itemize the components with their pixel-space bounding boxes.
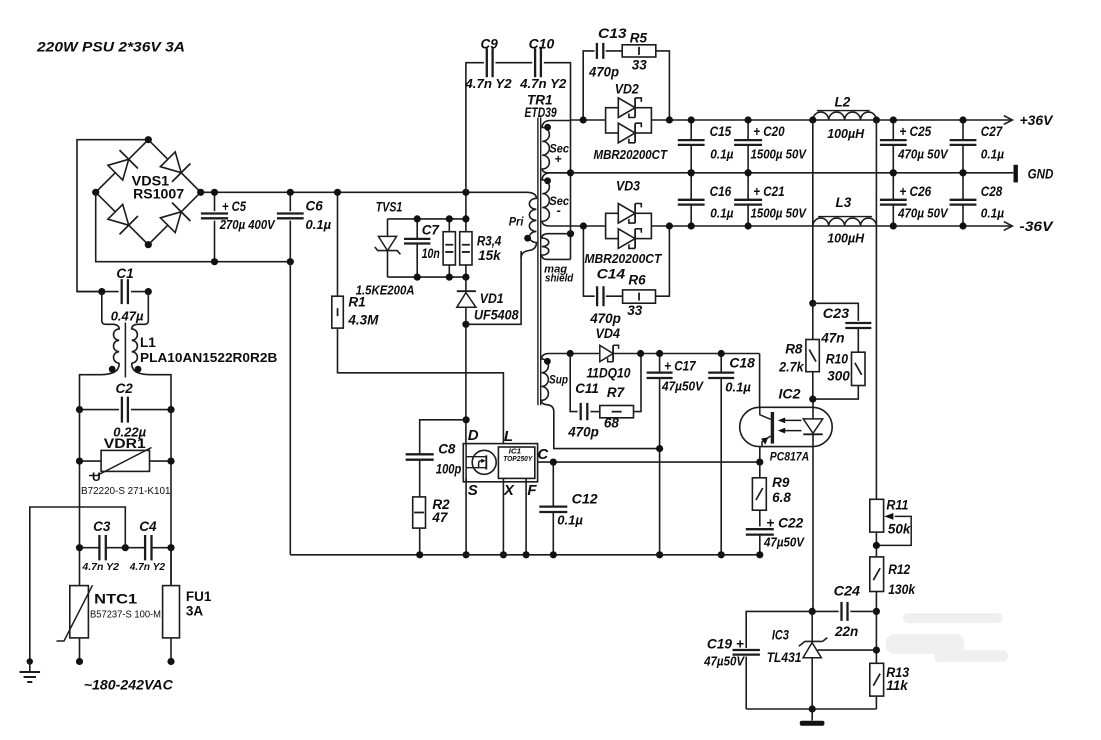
node R2 rail — [416, 551, 423, 558]
capacitor C19 — [746, 611, 812, 648]
wire Sup rail — [570, 353, 600, 355]
wire clamp riser — [465, 192, 467, 219]
wire left AC rail — [79, 410, 81, 586]
capacitor C1 — [77, 291, 119, 293]
L2 label underline — [817, 110, 870, 112]
svg-text:C10: C10 — [529, 36, 555, 51]
svg-text:C11: C11 — [575, 381, 599, 396]
node R3 bottom — [446, 274, 453, 281]
svg-text:22n: 22n — [834, 624, 858, 639]
choke L1 right bottom curl — [132, 363, 171, 410]
node C17 top — [656, 350, 663, 357]
svg-text:33: 33 — [632, 58, 648, 73]
capacitor C10 — [535, 48, 541, 77]
svg-text:C12: C12 — [572, 491, 599, 506]
node C3 left — [76, 544, 83, 551]
thermistor NTC1 — [70, 586, 89, 638]
wire mag shield vertical — [570, 234, 572, 260]
svg-text:C7: C7 — [422, 223, 441, 238]
node C4 right — [167, 544, 174, 551]
AC terminal left — [76, 658, 83, 665]
resistor R9 — [759, 462, 761, 478]
svg-text:0.1µ: 0.1µ — [306, 217, 332, 232]
capacitor C18 — [720, 354, 722, 373]
svg-text:+: + — [555, 152, 562, 166]
svg-text:F: F — [527, 482, 537, 499]
choke L1 left bottom curl — [80, 363, 120, 410]
wire AC1 top-left loop — [77, 140, 148, 292]
wire +36V rail — [571, 119, 606, 121]
snubber C13+R5 — [583, 51, 594, 120]
svg-text:3A: 3A — [186, 604, 204, 619]
svg-text:R6: R6 — [628, 272, 646, 287]
svg-text:0.1µ: 0.1µ — [981, 146, 1005, 161]
svg-text:MBR20200CT: MBR20200CT — [594, 147, 668, 162]
node earth stem — [27, 658, 33, 664]
svg-text:0.1µ: 0.1µ — [725, 380, 751, 395]
wire TL431 ref — [818, 649, 877, 651]
node C12 rail — [550, 551, 557, 558]
svg-text:C27: C27 — [981, 124, 1004, 139]
svg-text:Pri: Pri — [509, 215, 524, 229]
svg-text:47µ50V: 47µ50V — [703, 654, 745, 668]
node C28 bottom — [959, 222, 966, 229]
svg-text:FU1: FU1 — [186, 589, 212, 604]
node C2 right — [167, 406, 174, 413]
svg-text:0.1µ: 0.1µ — [557, 513, 583, 528]
svg-text:IC2: IC2 — [779, 386, 802, 401]
svg-text:B57237-S 100-M: B57237-S 100-M — [90, 610, 161, 621]
node snubber1 left — [580, 116, 587, 123]
svg-text:1500µ 50V: 1500µ 50V — [751, 147, 808, 161]
svg-text:C9: C9 — [481, 36, 499, 51]
IC1 D-S through wire — [465, 444, 467, 482]
node snubber1 right — [666, 116, 673, 123]
wire right AC rail — [170, 410, 172, 586]
node C16 top — [688, 169, 695, 176]
mag shield winding — [542, 234, 571, 260]
bridge diode bottom-left — [108, 204, 129, 225]
capacitor C8 — [420, 420, 466, 455]
capacitor C27 — [962, 120, 964, 140]
L1 phase dot right — [135, 366, 142, 373]
node TL431 anode — [809, 705, 816, 712]
capacitor C3 — [80, 547, 100, 549]
svg-text:270µ 400V: 270µ 400V — [219, 217, 276, 232]
node R1 rail — [334, 189, 341, 196]
svg-text:11k: 11k — [886, 678, 909, 693]
svg-text:68: 68 — [604, 416, 620, 431]
node bridge bottom — [145, 241, 152, 248]
capacitor C21 — [747, 173, 749, 200]
wire Y-cap run — [466, 63, 484, 193]
TVS diode TVS1 — [378, 236, 396, 250]
wire NTC to terminal — [79, 638, 81, 662]
wire clamp top — [388, 218, 466, 220]
IC1 mosfet symbol — [472, 450, 496, 474]
svg-text:~180-242VAC: ~180-242VAC — [84, 678, 173, 693]
node C22 rail — [756, 551, 763, 558]
svg-text:6.8: 6.8 — [772, 490, 791, 505]
wire S-rail (bottom common) — [290, 554, 760, 556]
node Sup rail left — [567, 350, 574, 357]
node bridge right — [197, 189, 204, 196]
node C24 left — [809, 608, 816, 615]
wire +36 sense divider — [875, 120, 877, 499]
svg-text:47µ50V: 47µ50V — [763, 536, 805, 550]
resistor R1 — [332, 296, 344, 328]
node C20 bottom — [745, 169, 752, 176]
svg-text:2.7k: 2.7k — [778, 360, 805, 375]
svg-text:C13: C13 — [598, 26, 627, 41]
svg-text:+ C20: + C20 — [753, 124, 785, 139]
node VDR1 right — [167, 458, 174, 465]
wire C pin — [538, 461, 760, 463]
svg-text:C1: C1 — [116, 266, 133, 281]
ground symbol secondary — [811, 709, 813, 721]
node C7 top — [414, 215, 421, 222]
node C11 rail right — [637, 350, 644, 357]
wire GND rail — [571, 172, 1014, 174]
node D pin — [463, 416, 470, 423]
node C5 top — [211, 189, 218, 196]
node X rail — [500, 551, 507, 558]
node VDR1 left — [76, 458, 83, 465]
node C16 bottom — [688, 222, 695, 229]
svg-text:100p: 100p — [436, 461, 461, 476]
svg-text:+ C26: + C26 — [899, 184, 931, 199]
node C6 top — [287, 189, 294, 196]
svg-text:C4: C4 — [139, 519, 157, 534]
bridge rectifier VDS1 diamond — [96, 140, 201, 245]
svg-text:100µH: 100µH — [827, 126, 865, 141]
node C3/C4 mid — [122, 544, 129, 551]
resistor R13 — [870, 663, 884, 696]
capacitor C9 — [487, 48, 493, 77]
svg-text:VD2: VD2 — [615, 82, 639, 97]
node C20 top — [745, 116, 752, 123]
node F rail — [523, 551, 530, 558]
svg-text:S: S — [468, 482, 478, 499]
wire -36V rail — [605, 225, 607, 227]
svg-text:R3,4: R3,4 — [477, 233, 502, 248]
capacitor C24 — [812, 610, 839, 612]
svg-text:B72220-S 271-K101: B72220-S 271-K101 — [81, 486, 171, 497]
svg-text:VD1: VD1 — [480, 291, 504, 306]
Sup phase dot — [544, 358, 551, 365]
node mag shield — [567, 230, 574, 237]
IC1 inner box — [498, 447, 534, 478]
node fb branch — [809, 300, 816, 307]
svg-text:4.7n Y2: 4.7n Y2 — [129, 561, 166, 573]
node C5 bottom — [211, 258, 218, 265]
svg-text:R7: R7 — [607, 385, 626, 400]
svg-text:TOP250Y: TOP250Y — [503, 456, 533, 463]
svg-text:0.1µ: 0.1µ — [981, 205, 1005, 220]
terminal GND bar — [1014, 165, 1018, 183]
svg-text:IC1: IC1 — [509, 449, 522, 456]
snubber C23+R10 — [813, 303, 859, 321]
wire Sup rail to opto collector — [759, 354, 761, 408]
IC2 led arrows — [784, 420, 802, 430]
svg-text:L3: L3 — [836, 195, 852, 210]
inductor L3 — [813, 218, 877, 226]
secondary winding Sec+ — [542, 121, 570, 173]
optocoupler IC2 body — [740, 407, 833, 446]
svg-text:D: D — [468, 427, 479, 444]
node LED anode — [809, 396, 816, 403]
svg-text:-: - — [557, 203, 561, 218]
capacitor C22 — [746, 529, 774, 534]
svg-text:R11: R11 — [886, 497, 908, 512]
capacitor C6 — [289, 192, 291, 211]
resistor R2 — [413, 497, 426, 528]
svg-text:470p: 470p — [589, 311, 621, 326]
svg-text:300: 300 — [827, 368, 850, 383]
shunt regulator IC3 TL431 — [811, 611, 813, 641]
wire X pin to rail — [502, 478, 504, 554]
wire earth from C3/C4 mid — [30, 507, 126, 662]
svg-text:PLA10AN1522R0R2B: PLA10AN1522R0R2B — [140, 350, 277, 365]
wire drain link to primary — [466, 251, 521, 324]
svg-text:50k: 50k — [888, 522, 912, 537]
node S rail — [463, 551, 470, 558]
choke L1 core line — [124, 323, 126, 378]
node C27 top — [959, 116, 966, 123]
wire secondary gnd rail — [746, 708, 876, 710]
wire R1 to L pin — [338, 328, 504, 444]
node C25 top — [890, 116, 897, 123]
node snubber2 right — [666, 222, 673, 229]
choke L1 right winding — [132, 292, 149, 363]
node C17 bottom rail — [656, 551, 663, 558]
svg-text:4.7n Y2: 4.7n Y2 — [81, 561, 119, 573]
svg-text:C2: C2 — [116, 381, 134, 396]
svg-text:C3: C3 — [93, 519, 111, 534]
svg-text:C18: C18 — [729, 355, 755, 370]
svg-text:NTC1: NTC1 — [94, 592, 138, 607]
svg-text:VD4: VD4 — [596, 326, 621, 341]
svg-text:47: 47 — [431, 510, 449, 525]
node C15 bottom — [688, 169, 695, 176]
svg-text:15k: 15k — [478, 248, 502, 263]
svg-text:C15: C15 — [710, 124, 732, 139]
svg-text:C19 +: C19 + — [707, 636, 744, 651]
IC2 phototransistor — [771, 412, 774, 444]
faint smudges — [886, 613, 1008, 662]
capacitor C25 — [892, 120, 894, 140]
snubber C11+R7 — [570, 354, 577, 412]
wire HV- rail — [96, 192, 291, 261]
node L2 right — [873, 116, 880, 123]
AC terminal right — [167, 658, 174, 665]
svg-text:L1: L1 — [140, 335, 156, 350]
node C6 bottom — [287, 258, 294, 265]
svg-text:11DQ10: 11DQ10 — [587, 366, 631, 381]
svg-text:1500µ 50V: 1500µ 50V — [751, 206, 808, 220]
capacitor C7 — [416, 219, 418, 239]
capacitor C17 — [659, 354, 661, 373]
arrow +36V output — [1004, 116, 1013, 125]
svg-text:VD3: VD3 — [616, 179, 640, 194]
node C26 top — [890, 169, 897, 176]
Pri phase dot — [524, 235, 531, 242]
capacitor C12 — [552, 462, 554, 507]
R11 wiper — [876, 516, 911, 545]
node R11 bottom — [873, 542, 880, 549]
svg-text:4.7n Y2: 4.7n Y2 — [519, 76, 567, 91]
svg-text:C8: C8 — [438, 442, 456, 457]
IC1 outer box — [463, 444, 537, 482]
L3 label underline — [818, 216, 872, 218]
svg-text:Sup: Sup — [549, 372, 568, 386]
svg-text:TL431: TL431 — [767, 650, 802, 665]
capacitor C28 — [962, 173, 964, 200]
capacitor C26 — [892, 173, 894, 200]
svg-text:+ C17: + C17 — [664, 359, 697, 374]
node C7 bottom — [414, 274, 421, 281]
Sec+ phase dot — [544, 124, 551, 131]
svg-text:+ C5: + C5 — [222, 199, 246, 214]
svg-text:C24: C24 — [834, 583, 861, 598]
svg-text:TVS1: TVS1 — [376, 199, 403, 214]
svg-text:PC817A: PC817A — [770, 449, 809, 463]
diode VD1 — [465, 277, 467, 291]
node R3 top — [446, 215, 453, 222]
svg-text:+36V: +36V — [1020, 113, 1054, 128]
svg-text:470µ 50V: 470µ 50V — [897, 206, 949, 220]
svg-text:VDR1: VDR1 — [104, 436, 147, 451]
svg-text:C: C — [537, 446, 549, 463]
capacitor C15 — [690, 120, 692, 140]
node C28 top — [959, 169, 966, 176]
svg-text:4.7n Y2: 4.7n Y2 — [464, 76, 512, 91]
rectifier VD2 (dual schottky) — [606, 108, 652, 133]
node C18 bottom rail — [718, 551, 725, 558]
svg-text:47µ50V: 47µ50V — [661, 380, 705, 394]
bridge diode top-right — [160, 152, 181, 173]
svg-text:470p: 470p — [588, 65, 619, 80]
svg-text:0.1µ: 0.1µ — [710, 205, 734, 220]
node C18 top — [718, 350, 725, 357]
node snubber2 left — [580, 222, 587, 229]
node C26 bottom — [890, 222, 897, 229]
node center tap — [567, 169, 574, 176]
svg-text:C28: C28 — [981, 184, 1003, 199]
node bridge left — [92, 189, 99, 196]
arrow -36V output — [1004, 222, 1013, 231]
svg-text:+ C21: + C21 — [753, 184, 784, 199]
svg-text:GND: GND — [1028, 167, 1054, 182]
snubber C14+R6 — [583, 226, 594, 296]
node C21 bottom — [745, 222, 752, 229]
node C2 left — [76, 406, 83, 413]
svg-text:100µH: 100µH — [827, 230, 865, 245]
svg-text:C6: C6 — [306, 199, 324, 214]
svg-text:470p: 470p — [567, 425, 599, 440]
svg-text:+ C22: + C22 — [766, 516, 803, 531]
svg-text:R5: R5 — [630, 31, 648, 46]
svg-text:UF5408: UF5408 — [474, 307, 519, 322]
svg-text:4.3M: 4.3M — [347, 313, 379, 328]
svg-text:RS1007: RS1007 — [133, 187, 184, 202]
potentiometer R11 — [870, 499, 884, 532]
node C25 bottom — [890, 169, 897, 176]
resistor R12 — [870, 557, 884, 592]
node C12 top — [550, 459, 557, 466]
svg-text:33: 33 — [627, 303, 643, 318]
svg-text:0.47µ: 0.47µ — [111, 309, 144, 324]
node C27 bottom — [959, 169, 966, 176]
wire R1 top — [337, 192, 339, 296]
node R4 bottom — [462, 274, 469, 281]
node drain link — [462, 321, 469, 328]
svg-text:470µ 50V: 470µ 50V — [897, 147, 949, 161]
supply winding Sup — [542, 354, 660, 449]
secondary winding Sec- — [542, 173, 605, 226]
inductor L2 — [813, 112, 877, 120]
Sec- phase dot — [544, 177, 551, 184]
svg-text:47n: 47n — [820, 331, 844, 346]
capacitor C20 — [747, 120, 749, 140]
svg-text:R12: R12 — [888, 562, 910, 577]
L1 phase dot left — [109, 366, 116, 373]
svg-text:0.1µ: 0.1µ — [710, 146, 734, 161]
wire S pin to rail — [465, 478, 467, 554]
diode VD4 — [600, 345, 613, 361]
TVS1 branch wires — [387, 219, 389, 237]
svg-text:X: X — [503, 482, 515, 499]
svg-text:R10: R10 — [826, 352, 849, 367]
node C17/Sup-return — [656, 445, 663, 452]
svg-text:U: U — [92, 470, 101, 484]
IC2 led — [812, 399, 814, 419]
ground symbol (mains earth) — [29, 662, 31, 673]
svg-text:shield: shield — [545, 273, 574, 285]
node clamp rail — [462, 189, 469, 196]
wire IC2 emitter — [759, 447, 761, 463]
svg-text:10n: 10n — [422, 246, 440, 261]
choke L1 left winding — [102, 292, 119, 363]
svg-text:L: L — [504, 428, 513, 445]
node C24 right — [873, 608, 880, 615]
node L2 left — [809, 116, 816, 123]
svg-text:MBR20200CT: MBR20200CT — [585, 251, 663, 266]
node C21 top — [745, 169, 752, 176]
node R4 top — [462, 215, 469, 222]
node bridge top — [145, 136, 152, 143]
svg-text:+ C25: + C25 — [899, 124, 931, 139]
capacitor C16 — [690, 173, 692, 200]
resistor R3 — [448, 219, 450, 232]
svg-text:L2: L2 — [835, 95, 851, 110]
wire LED cathode down — [812, 447, 814, 612]
wire +36 pre-filter sense — [812, 120, 814, 303]
svg-text:IC3: IC3 — [772, 628, 789, 643]
svg-text:-36V: -36V — [1020, 219, 1054, 234]
rectifier VD3 (dual schottky) — [606, 213, 652, 238]
primary winding Pri — [521, 192, 536, 258]
resistor R8 — [812, 303, 814, 339]
varistor VDR1 — [80, 460, 102, 462]
capacitor C4 — [125, 547, 145, 549]
node C15 top — [688, 116, 695, 123]
svg-text:C14: C14 — [597, 266, 626, 281]
svg-text:130k: 130k — [888, 582, 916, 597]
svg-text:R8: R8 — [785, 342, 803, 357]
capacitor C2 — [80, 409, 119, 411]
node C1 right — [145, 288, 152, 295]
